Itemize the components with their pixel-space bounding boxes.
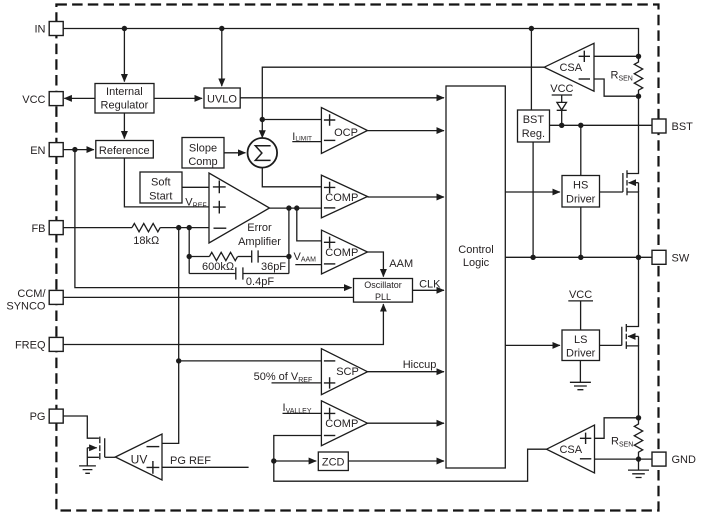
comparator SCP [321,349,367,395]
svg-text:COMP: COMP [325,192,358,204]
resistor RSEN1 [634,56,642,96]
diode bootstrap [557,102,567,125]
label valley plus [324,408,335,419]
label error amp plus1 [213,181,226,194]
label error amp minus [214,227,227,229]
wire GND rail [595,458,653,460]
svg-text:IVALLEY: IVALLEY [283,402,312,415]
wire HS drain to RSEN [627,96,639,173]
node SW-FET junction [636,255,641,260]
block Internal Regulator [95,84,154,114]
wire COMP out to Control Logic [368,196,445,198]
stub ILIMIT [292,141,321,143]
wire BST to HS Driver supply [580,125,582,175]
svg-text:AAM: AAM [389,258,413,270]
wire PG body [87,447,96,449]
node comp right junction [286,254,291,259]
resistor 18k [132,223,160,231]
wire CSA1 minus input [594,79,639,96]
wire Internal Regulator to VCC pin [64,97,95,99]
wire comp right vertical [288,208,290,273]
transistor LS MOSFET [622,324,627,349]
wire IN to Internal Regulator [123,29,125,82]
svg-text:0.4pF: 0.4pF [246,276,274,288]
wire EN sense to Oscillator PLL [75,150,352,288]
svg-text:Error: Error [247,222,272,234]
node comp branch junction [187,254,192,259]
node EA out AAM junction [294,205,299,210]
wire Internal Regulator to Reference [123,113,125,139]
wire HS body [629,183,639,192]
svg-text:OCP: OCP [334,127,358,139]
svg-text:IN: IN [35,24,46,36]
wire VREF from Reference to error amplifier [124,158,209,207]
resistor RSEN2 [634,418,642,459]
wire LS gate [600,344,622,346]
wire UVLO to Control Logic [240,97,444,99]
power VCC LS rail [568,301,593,330]
wire PG to FET drain [64,416,99,438]
wire ZCD to Control Logic [348,460,444,462]
wire HS source to SW [627,192,639,257]
wire Slope Comp to summer [224,152,245,154]
svg-text:Logic: Logic [463,257,490,269]
comparator COMP aam [322,230,368,274]
wire CSA2 plus input [595,418,639,439]
svg-text:Hiccup: Hiccup [403,359,437,371]
svg-text:HS: HS [573,180,588,192]
svg-text:COMP: COMP [325,247,358,259]
stub IVALLEY [283,412,322,414]
block Reference [96,141,154,159]
svg-text:Amplifier: Amplifier [238,236,281,248]
comparator COMP pwm [321,175,367,218]
wire 36pF to output node [258,256,289,258]
summer sigma symbol [255,146,270,161]
svg-text:Internal: Internal [106,86,143,98]
label COMP aam minus [324,263,335,265]
wire CSA2 feedback to valley COMP minus [274,436,547,482]
wire CLK PLL to Control Logic [413,289,445,291]
block ZCD [318,452,348,471]
svg-text:50% of VREF: 50% of VREF [254,371,313,384]
pin BST [652,119,666,133]
label UV minus [147,446,160,448]
svg-text:GND: GND [672,454,697,466]
pin PG [49,409,63,423]
block HS Driver [562,176,600,208]
node RSEN2 bottom junction [636,456,641,461]
node BST-HS junction [578,123,583,128]
ground LS Driver [570,382,591,389]
wire LS drain to SW [626,257,638,326]
svg-text:PG REF: PG REF [170,455,211,467]
op-amp CSA1 [544,43,594,91]
svg-text:18kΩ: 18kΩ [133,235,160,247]
svg-text:VCC: VCC [569,289,592,301]
resistor 600k [209,252,237,260]
wire LS source to RSEN [626,346,638,418]
svg-text:600kΩ: 600kΩ [202,261,235,273]
label error amp plus2 [213,201,226,214]
svg-text:FREQ: FREQ [15,339,46,351]
block Soft Start [140,172,182,203]
label CSA1 minus [579,78,590,80]
block UVLO [204,88,240,108]
svg-text:Comp: Comp [188,156,217,168]
svg-text:VCC: VCC [550,83,573,95]
wire Soft Start to error amplifier [182,186,209,188]
svg-text:Start: Start [149,190,172,202]
wire CCM/SYNCO to PLL [64,296,354,298]
wire BST Reg feed [530,29,532,111]
svg-text:CLK: CLK [419,278,441,290]
svg-text:BST: BST [672,121,694,133]
node EN junction [72,147,77,152]
comparator OCP [321,108,367,154]
pin GND [652,452,666,466]
wire PG REF [162,466,249,468]
node IN-BSTReg junction [529,26,534,31]
svg-text:CCM/: CCM/ [17,288,46,300]
svg-text:Regulator: Regulator [101,99,149,111]
pin SW [652,250,666,264]
label CSA2 plus [580,433,591,444]
node RSEN2 top junction [636,415,641,420]
wire EN to Reference [64,149,94,151]
ground RSEN2 [628,470,649,477]
op-amp error amplifier [209,173,270,243]
pin IN [49,22,63,36]
label OCP minus [324,139,335,141]
wire Hiccup SCP to Control Logic [368,371,445,373]
svg-text:UV: UV [131,452,148,466]
wire PG source to ground [87,448,99,466]
pin CCM/SYNCO [49,290,63,304]
svg-text:Driver: Driver [566,193,596,205]
wire comp branch1 left [189,256,209,258]
label COMP minus [324,207,335,209]
wire 18k to error amp minus [160,227,209,229]
capacitor 36pF [252,250,258,262]
comparator COMP valley [321,401,367,446]
label COMP plus [324,182,335,193]
svg-text:VCC: VCC [22,94,45,106]
node summer junction [260,117,265,122]
wire LS body [628,336,639,346]
wire to OCP plus [262,119,321,121]
svg-text:Soft: Soft [151,177,171,189]
wire comp branch2 left [189,273,236,275]
transistor PG MOSFET [100,437,105,460]
wire HS gate [600,191,623,193]
label UV plus [147,461,160,474]
svg-text:Reference: Reference [99,145,150,157]
wire Control Logic to HS Driver [505,191,560,193]
power VCC bootstrap rail [552,95,572,102]
wire Control Logic to LS Driver [505,344,560,346]
node FB comp junction [187,225,192,230]
wire summer to COMP plus [262,168,321,187]
wire FB sense to SCP minus [179,360,322,362]
label OCP plus [324,114,335,125]
svg-text:CSA: CSA [559,62,582,74]
svg-text:RSEN: RSEN [611,70,633,83]
svg-text:COMP: COMP [325,418,358,430]
wire BST Reg to SW [532,142,534,257]
wire 600k to 36pF [238,256,252,258]
wire OCP out to Control Logic [368,130,445,132]
svg-text:Control: Control [458,244,493,256]
wire IN bus [64,29,639,57]
block Slope Comp [182,138,224,169]
svg-text:VAAM: VAAM [294,251,317,264]
wire ground stub [638,459,640,470]
svg-text:SCP: SCP [336,366,359,378]
wire FB sense down to UV [162,228,179,444]
block Oscillator PLL [354,279,413,303]
wire compensation left vertical [188,228,190,274]
wire error amplifier output [270,207,322,209]
wire into summer top [261,120,263,138]
svg-text:PG: PG [30,411,46,423]
svg-text:EN: EN [30,145,45,157]
wire SW rail [505,256,652,258]
block Control Logic [446,86,505,468]
capacitor 0.4pF [236,267,243,279]
wire AAM to Oscillator PLL [368,252,384,277]
node FB sense junction [176,225,181,230]
wire IN to UVLO [221,29,223,87]
wire FB input [64,227,133,229]
label COMP aam plus [324,237,335,248]
stub 50% VREF to SCP plus [272,382,322,384]
pin FB [49,221,63,235]
svg-text:LS: LS [574,334,587,346]
svg-text:ILIMIT: ILIMIT [292,131,312,143]
wire tap to ZCD [274,460,316,462]
label SCP minus [324,360,335,362]
svg-text:FB: FB [31,223,45,235]
stub VAAM [295,264,321,266]
node EA out comp junction [286,205,291,210]
node IN-IntReg junction [122,26,127,31]
svg-text:Driver: Driver [566,347,596,359]
wire UV output to PG gate [105,456,116,458]
wire 0.4pF to output node [243,273,289,275]
svg-text:ZCD: ZCD [322,457,345,469]
ground PG FET [79,466,96,473]
node diode-BST junction [559,123,564,128]
wire CSA1 out to summer and OCP [262,67,544,119]
svg-text:RSEN: RSEN [611,436,633,449]
svg-text:UVLO: UVLO [207,93,237,105]
svg-text:36pF: 36pF [261,261,286,273]
comparator UV [115,434,162,480]
pin VCC [49,92,63,106]
block LS Driver [562,330,600,361]
pin EN [49,143,63,157]
wire FREQ to PLL [64,304,384,344]
transistor HS MOSFET [623,170,627,195]
wire Internal Regulator to UVLO [154,97,202,99]
svg-text:Reg.: Reg. [522,128,545,140]
op-amp CSA2 [547,425,595,473]
svg-text:SW: SW [672,253,690,265]
svg-text:SYNCO: SYNCO [6,301,46,313]
node IN-UVLO junction [219,26,224,31]
wire BST rail [549,124,652,126]
node ZCD tap junction [271,458,276,463]
label CSA1 plus [579,51,590,62]
node RSEN1 top junction [636,54,641,59]
wire LS Driver to ground [579,361,581,383]
wire EA out to AAM comparator plus [297,208,322,241]
label valley minus [324,435,335,437]
pin FREQ [49,337,63,351]
label CSA2 minus [580,458,591,460]
wire valley COMP to Control Logic [368,422,445,424]
node SW-BSTReg junction [530,255,535,260]
summer circle [247,138,277,168]
svg-text:PLL: PLL [375,292,391,302]
svg-text:VREF: VREF [185,197,206,210]
svg-text:Oscillator: Oscillator [364,280,402,290]
wire CSA1 plus input [594,55,639,57]
node RSEN1 bottom junction [636,94,641,99]
label SCP plus [324,377,335,388]
block BST Reg [518,110,550,142]
svg-text:Slope: Slope [189,143,217,155]
wire HS Driver to SW [580,207,582,257]
node FB-SCP junction [176,358,181,363]
svg-text:CSA: CSA [559,444,582,456]
svg-text:BST: BST [523,114,545,126]
node SW-HSdriver junction [578,255,583,260]
